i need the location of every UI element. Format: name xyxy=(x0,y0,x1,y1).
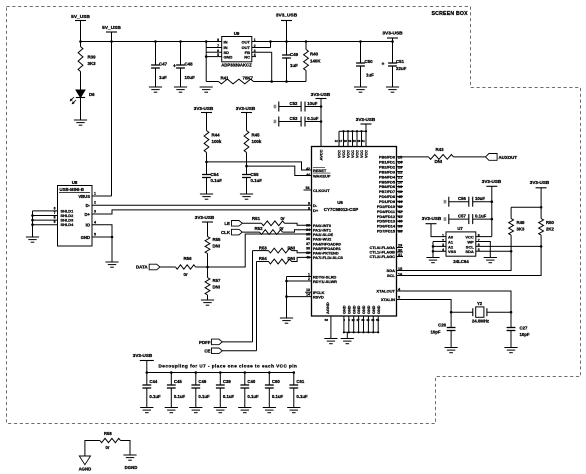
wire GND pin xyxy=(92,236,112,238)
wire pullup rail xyxy=(540,188,542,219)
svg-text:5V_USB: 5V_USB xyxy=(71,14,90,20)
capacitor C49 xyxy=(286,42,288,56)
svg-text:Decoupling for U7 - place one: Decoupling for U7 - place one close to e… xyxy=(159,364,298,369)
wire DATA to PA2 xyxy=(206,266,209,269)
svg-text:U6: U6 xyxy=(337,200,343,205)
svg-text:24LC64: 24LC64 xyxy=(453,259,469,264)
svg-text:41: 41 xyxy=(398,215,402,219)
capacitor C56 xyxy=(444,200,447,204)
wire PB0 to R43 xyxy=(397,156,429,158)
wire SDA to U6 xyxy=(397,251,512,270)
svg-text:R39: R39 xyxy=(88,55,97,60)
svg-text:31: 31 xyxy=(398,253,402,257)
svg-text:U8: U8 xyxy=(72,180,78,185)
svg-text:CY7C68013-CSP: CY7C68013-CSP xyxy=(324,207,358,212)
svg-text:19: 19 xyxy=(398,185,402,189)
wire U9 FB to divider xyxy=(252,51,272,53)
svg-text:D+: D+ xyxy=(313,208,319,213)
resistor R57 xyxy=(207,267,209,278)
wire A0 pull-up xyxy=(431,224,446,237)
wire RSVD xyxy=(287,296,312,298)
svg-text:2: 2 xyxy=(94,201,96,205)
svg-text:RDY1/-SLWR: RDY1/-SLWR xyxy=(313,279,337,284)
svg-text:30: 30 xyxy=(398,248,402,252)
svg-text:36: 36 xyxy=(361,318,365,322)
wire to DGND xyxy=(121,441,131,456)
svg-text:10pF: 10pF xyxy=(520,332,530,337)
svg-text:10uF: 10uF xyxy=(307,101,317,106)
svg-text:CTL2/-FLAGC: CTL2/-FLAGC xyxy=(369,254,395,259)
wire to AGND xyxy=(85,441,100,457)
svg-text:SDA: SDA xyxy=(465,249,474,254)
svg-text:17: 17 xyxy=(339,139,343,143)
svg-text:48: 48 xyxy=(357,139,361,143)
svg-text:R44: R44 xyxy=(212,133,221,138)
wire IO xyxy=(92,225,112,237)
svg-text:0.1uF: 0.1uF xyxy=(211,178,223,183)
svg-text:29: 29 xyxy=(398,244,402,248)
resistor R40 xyxy=(305,42,307,50)
resistor R58 xyxy=(100,438,121,442)
svg-text:CLK: CLK xyxy=(221,230,231,235)
capacitor C48 xyxy=(180,42,182,66)
svg-text:SHLD4: SHLD4 xyxy=(61,222,75,227)
svg-text:DNI: DNI xyxy=(213,285,220,290)
svg-text:C60: C60 xyxy=(272,379,280,384)
svg-text:SCL: SCL xyxy=(387,273,396,278)
ground below C46 xyxy=(189,407,202,409)
svg-text:XTALIN: XTALIN xyxy=(381,297,395,302)
svg-text:13: 13 xyxy=(306,288,310,292)
resistor R54 xyxy=(257,261,269,263)
svg-text:R51: R51 xyxy=(252,216,261,221)
resistor R51 xyxy=(242,222,261,224)
svg-text:56: 56 xyxy=(325,318,329,322)
ground U7 WP xyxy=(484,257,497,259)
capacitor C51 xyxy=(392,42,394,64)
svg-text:R52: R52 xyxy=(255,226,264,231)
svg-text:C51: C51 xyxy=(396,59,405,64)
svg-text:3V3-USB: 3V3-USB xyxy=(194,106,214,111)
svg-text:GND: GND xyxy=(347,305,351,314)
ground below U9 xyxy=(200,86,213,88)
pin U9 NC stub xyxy=(252,56,256,58)
svg-text:45: 45 xyxy=(398,195,402,199)
svg-text:0r: 0r xyxy=(184,272,188,277)
ground below C51 xyxy=(386,86,399,88)
svg-text:10uF: 10uF xyxy=(185,75,196,80)
svg-text:3V3-USB: 3V3-USB xyxy=(530,180,550,185)
svg-text:GND: GND xyxy=(362,305,366,314)
svg-text:C53: C53 xyxy=(290,116,298,121)
ground below C40 xyxy=(238,407,251,409)
ground below C54 xyxy=(200,193,213,195)
svg-text:C49: C49 xyxy=(290,52,299,57)
svg-text:2K2: 2K2 xyxy=(546,227,554,232)
svg-text:55: 55 xyxy=(376,318,380,322)
wire SCL to U6 xyxy=(397,246,542,275)
svg-text:GND: GND xyxy=(357,305,361,314)
svg-text:42: 42 xyxy=(398,210,402,214)
svg-text:22: 22 xyxy=(398,170,402,174)
svg-text:100k: 100k xyxy=(212,139,222,144)
ground AGND xyxy=(324,338,337,340)
svg-text:8: 8 xyxy=(54,216,56,220)
capacitor C60 xyxy=(268,373,270,386)
wire decoupling rail xyxy=(147,372,294,374)
svg-text:C39: C39 xyxy=(223,379,231,384)
svg-text:OUT: OUT xyxy=(242,40,251,45)
svg-text:DATA: DATA xyxy=(136,265,148,270)
svg-text:C56: C56 xyxy=(458,196,466,201)
svg-text:C44: C44 xyxy=(149,379,157,384)
svg-text:CE: CE xyxy=(204,349,210,354)
svg-text:VCC: VCC xyxy=(342,150,346,158)
wire 5V_USB down to rail xyxy=(80,21,82,42)
svg-text:DGND: DGND xyxy=(125,465,138,470)
svg-text:0.1uF: 0.1uF xyxy=(475,213,487,218)
svg-text:36: 36 xyxy=(306,237,310,241)
ground below C50 xyxy=(354,86,367,88)
svg-text:XTALOUT: XTALOUT xyxy=(376,289,395,294)
svg-text:GND: GND xyxy=(81,235,90,240)
pin IFCLK xyxy=(305,291,311,293)
wire WAKEUP net xyxy=(245,165,248,168)
svg-text:39: 39 xyxy=(398,225,402,229)
svg-text:VBUS: VBUS xyxy=(78,194,90,199)
svg-text:AGND: AGND xyxy=(325,302,330,314)
svg-text:RESET: RESET xyxy=(313,168,327,173)
svg-text:0.1uF: 0.1uF xyxy=(174,394,186,399)
svg-text:28: 28 xyxy=(344,139,348,143)
pin CTL1/-FLAGB xyxy=(397,251,404,253)
svg-text:VSS: VSS xyxy=(448,249,456,254)
regulator U9 ADP3339AKCZ xyxy=(222,37,252,62)
svg-text:0.1uF: 0.1uF xyxy=(307,116,319,121)
svg-text:C47: C47 xyxy=(159,62,168,67)
capacitor C47 xyxy=(155,42,157,66)
svg-text:R50: R50 xyxy=(546,220,554,225)
svg-text:0.1uF: 0.1uF xyxy=(296,394,308,399)
svg-text:38: 38 xyxy=(398,230,402,234)
svg-text:GND: GND xyxy=(224,55,233,60)
capacitor C53 xyxy=(274,120,277,124)
svg-text:ADP3339AKCZ: ADP3339AKCZ xyxy=(221,63,252,68)
resistor R43 xyxy=(429,155,454,160)
wire 3V3 rail xyxy=(252,41,393,43)
pin CTL2/-FLAGC xyxy=(397,256,404,258)
ground U7 left xyxy=(426,257,439,259)
ground below C55 xyxy=(240,193,253,195)
capacitor C39 xyxy=(219,373,221,386)
svg-text:DNI: DNI xyxy=(288,245,295,250)
svg-text:18: 18 xyxy=(398,190,402,194)
svg-text:7: 7 xyxy=(54,211,56,215)
svg-text:C57: C57 xyxy=(458,213,466,218)
svg-text:GND: GND xyxy=(367,305,371,314)
svg-text:PDFF: PDFF xyxy=(199,340,211,345)
ground below C60 xyxy=(263,407,276,409)
capacitor C40 xyxy=(244,373,246,386)
svg-text:D-: D- xyxy=(86,203,91,208)
ground below U8 xyxy=(105,261,118,263)
svg-text:10pF: 10pF xyxy=(430,330,440,335)
capacitor C54 xyxy=(206,162,208,175)
svg-text:3: 3 xyxy=(94,210,96,214)
ground below D6 xyxy=(74,119,87,121)
svg-text:35: 35 xyxy=(306,233,310,237)
wire PDFF riser xyxy=(252,251,254,342)
svg-text:49: 49 xyxy=(371,318,375,322)
svg-text:0.1uF: 0.1uF xyxy=(149,394,161,399)
wire U7 ground bus xyxy=(433,241,446,243)
svg-text:38: 38 xyxy=(306,246,310,250)
svg-text:3K3: 3K3 xyxy=(88,61,97,66)
svg-text:WAKEUP: WAKEUP xyxy=(313,174,331,179)
resistor R45 xyxy=(246,113,248,131)
svg-text:C61: C61 xyxy=(296,379,304,384)
svg-text:1uF: 1uF xyxy=(290,63,298,68)
svg-text:DNI: DNI xyxy=(288,256,295,261)
svg-text:SCREEN BOX: SCREEN BOX xyxy=(432,11,469,17)
svg-text:9: 9 xyxy=(308,206,310,210)
wire VBUS xyxy=(92,195,112,197)
svg-text:53: 53 xyxy=(353,139,357,143)
svg-text:CLKOUT: CLKOUT xyxy=(313,188,330,193)
resistor R44 xyxy=(206,113,208,131)
svg-text:DNI: DNI xyxy=(213,244,220,249)
svg-text:12: 12 xyxy=(335,139,339,143)
wire CE riser xyxy=(256,262,258,351)
svg-text:IO: IO xyxy=(86,223,91,228)
svg-text:1: 1 xyxy=(308,273,310,277)
svg-text:46: 46 xyxy=(366,318,370,322)
svg-text:0.1uF: 0.1uF xyxy=(247,394,259,399)
svg-text:1uF: 1uF xyxy=(366,73,374,78)
capacitor C27 xyxy=(510,312,512,327)
crystal Y2 xyxy=(451,311,473,313)
ground RDY bus xyxy=(280,317,293,319)
svg-text:USB-MINI-B: USB-MINI-B xyxy=(60,187,85,192)
svg-text:U9: U9 xyxy=(234,31,240,36)
svg-text:54: 54 xyxy=(306,186,310,190)
svg-text:0.1uF: 0.1uF xyxy=(251,178,263,183)
svg-text:R54: R54 xyxy=(259,256,267,261)
svg-text:C52: C52 xyxy=(290,101,298,106)
wire AVCC riser xyxy=(320,99,322,147)
USB connector U8 USB-MINI-B xyxy=(58,186,93,247)
svg-text:3V3-USB: 3V3-USB xyxy=(236,106,256,111)
svg-text:C26: C26 xyxy=(438,323,446,328)
svg-text:3V3-USB: 3V3-USB xyxy=(195,215,215,220)
svg-text:3V3-USB: 3V3-USB xyxy=(382,31,403,37)
svg-text:GND: GND xyxy=(372,305,376,314)
svg-text:C40: C40 xyxy=(247,379,255,384)
svg-text:1: 1 xyxy=(94,192,96,196)
svg-text:GND: GND xyxy=(377,305,381,314)
svg-text:VCC: VCC xyxy=(338,150,342,158)
ground below C47 xyxy=(149,86,162,88)
svg-text:0r: 0r xyxy=(106,445,110,450)
svg-text:R43: R43 xyxy=(436,147,445,152)
wire U7 WP to ground xyxy=(476,242,491,258)
svg-text:24.0MHz: 24.0MHz xyxy=(472,319,489,324)
capacitor C45 xyxy=(170,373,172,386)
svg-text:AUXOUT: AUXOUT xyxy=(499,155,518,160)
capacitor C26 xyxy=(450,312,452,327)
svg-text:40: 40 xyxy=(398,220,402,224)
wire XTALIN xyxy=(397,300,452,313)
wire U7 SDA xyxy=(476,250,511,252)
ground shield xyxy=(26,236,39,238)
IC U7 24LC64 body xyxy=(446,232,476,256)
ground below C27 xyxy=(504,347,517,349)
svg-text:VCC: VCC xyxy=(365,150,369,158)
svg-text:GND: GND xyxy=(343,305,347,314)
resistor R41 xyxy=(206,81,218,83)
wire RESET net xyxy=(205,161,208,164)
ground below C39 xyxy=(214,407,227,409)
svg-text:VCC: VCC xyxy=(356,150,360,158)
svg-text:NC: NC xyxy=(244,55,250,60)
resistor R52 xyxy=(242,231,259,233)
ground below C44 xyxy=(140,407,153,409)
svg-text:3V3-USB: 3V3-USB xyxy=(311,92,331,97)
pin CLKOUT xyxy=(304,189,312,191)
ground below C26 xyxy=(445,347,458,349)
svg-text:27: 27 xyxy=(356,318,360,322)
wire D- to U6 xyxy=(92,204,312,206)
svg-text:R53: R53 xyxy=(259,245,267,250)
svg-text:43: 43 xyxy=(348,139,352,143)
svg-text:1uF: 1uF xyxy=(159,75,167,80)
svg-text:5V_USB: 5V_USB xyxy=(102,25,121,31)
svg-text:C27: C27 xyxy=(520,326,528,331)
svg-text:37: 37 xyxy=(306,242,310,246)
svg-text:DNI: DNI xyxy=(435,159,443,164)
wire RDY0 xyxy=(287,276,312,278)
svg-text:R56: R56 xyxy=(184,256,193,261)
svg-text:PA7/-FLD/-SLCS: PA7/-FLD/-SLCS xyxy=(313,255,343,260)
capacitor C50 xyxy=(360,42,362,64)
capacitor C44 xyxy=(146,373,148,386)
ground below C61 xyxy=(287,407,300,409)
svg-text:+: + xyxy=(173,64,176,70)
svg-text:VCC: VCC xyxy=(347,150,351,158)
resistor R49 xyxy=(510,207,512,218)
svg-text:AGND: AGND xyxy=(79,467,92,472)
svg-text:0r: 0r xyxy=(281,216,285,221)
svg-text:VCC: VCC xyxy=(351,150,355,158)
svg-text:GND: GND xyxy=(352,305,356,314)
svg-text:5: 5 xyxy=(94,233,96,237)
svg-text:44: 44 xyxy=(306,173,310,177)
svg-text:3V3-USB: 3V3-USB xyxy=(482,179,502,184)
svg-text:Y2: Y2 xyxy=(477,301,483,306)
resistor R56 xyxy=(160,266,176,268)
svg-text:C48: C48 xyxy=(185,62,194,67)
svg-text:6: 6 xyxy=(54,206,56,210)
svg-text:22uF: 22uF xyxy=(396,66,407,71)
LED D6 xyxy=(76,90,85,98)
svg-text:+: + xyxy=(382,62,385,68)
AGND symbol xyxy=(79,456,90,465)
svg-text:3V3_USB: 3V3_USB xyxy=(276,13,298,19)
wire U7 VCC stub xyxy=(476,236,492,238)
resistor R39 xyxy=(78,47,83,72)
IC U6 CY7C68013-CSP body xyxy=(312,147,397,317)
svg-text:U7: U7 xyxy=(457,226,463,231)
capacitor C57 xyxy=(444,217,447,221)
svg-text:0r: 0r xyxy=(280,226,284,231)
svg-text:42: 42 xyxy=(306,167,310,171)
svg-text:R58: R58 xyxy=(104,431,112,436)
wire RDY1 xyxy=(287,280,312,282)
svg-text:R57: R57 xyxy=(213,278,221,283)
svg-text:C54: C54 xyxy=(211,172,220,177)
svg-text:23: 23 xyxy=(398,165,402,169)
wire U7 SCL xyxy=(476,245,541,247)
svg-text:10uF: 10uF xyxy=(475,196,485,201)
svg-text:IN: IN xyxy=(224,40,228,45)
wire U7 VCC riser xyxy=(491,186,493,236)
svg-text:3V3-USB: 3V3-USB xyxy=(133,353,153,358)
capacitor C61 xyxy=(293,373,295,386)
wire U9 output pins xyxy=(252,41,271,43)
svg-text:3K3: 3K3 xyxy=(517,227,525,232)
svg-text:D+: D+ xyxy=(85,212,91,217)
capacitor C55 xyxy=(246,166,248,174)
wire XTALOUT xyxy=(397,291,512,312)
wire D+ to U6 xyxy=(92,210,312,214)
pin GND comb xyxy=(343,316,345,332)
svg-text:C50: C50 xyxy=(365,59,374,64)
svg-text:43: 43 xyxy=(398,205,402,209)
wire shield bus xyxy=(33,210,58,212)
svg-text:16: 16 xyxy=(398,273,402,277)
svg-text:22: 22 xyxy=(352,318,356,322)
wire VCC rail comb xyxy=(365,124,367,131)
svg-text:20: 20 xyxy=(398,180,402,184)
svg-text:AVCC: AVCC xyxy=(319,149,324,160)
svg-text:C46: C46 xyxy=(198,379,206,384)
ground below C48 xyxy=(174,86,187,88)
svg-text:R45: R45 xyxy=(252,133,261,138)
wire 5V rail xyxy=(81,41,222,43)
svg-text:0.1uF: 0.1uF xyxy=(272,394,284,399)
wire U9 input pins bus xyxy=(206,41,222,43)
resistor R50 xyxy=(539,219,544,236)
svg-text:D6: D6 xyxy=(89,92,95,97)
wire VBUS riser xyxy=(111,32,113,196)
svg-text:C55: C55 xyxy=(251,172,260,177)
svg-text:8: 8 xyxy=(308,201,310,205)
connector AUXOUT xyxy=(486,154,498,161)
resistor R55 xyxy=(207,222,209,237)
svg-text:LE: LE xyxy=(224,221,230,226)
svg-text:100k: 100k xyxy=(252,139,262,144)
svg-text:R40: R40 xyxy=(310,52,319,57)
svg-text:C45: C45 xyxy=(174,379,182,384)
svg-text:41: 41 xyxy=(362,139,366,143)
resistor R53 xyxy=(253,250,269,252)
ground below R57 xyxy=(201,299,214,301)
svg-text:R55: R55 xyxy=(213,237,221,242)
pin CTL0/-FLAGA xyxy=(397,247,404,249)
svg-text:3V3-USB: 3V3-USB xyxy=(356,117,376,122)
wire RDY ground bus xyxy=(286,277,288,319)
svg-text:3V3-USB: 3V3-USB xyxy=(422,216,442,221)
